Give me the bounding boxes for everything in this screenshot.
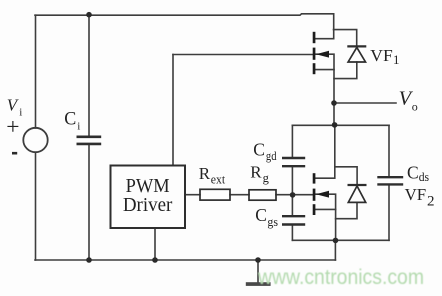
- svg-text:R: R: [199, 164, 211, 183]
- wire ground stub: [257, 260, 259, 282]
- wire VF1 drain vertical: [316, 14, 334, 39]
- wire junction to Cgs: [291, 195, 293, 216]
- wire Cgd branch upper: [291, 125, 293, 157]
- wire VF1 diode branch top: [334, 30, 357, 47]
- wire left vertical upper: [35, 15, 37, 128]
- node top rail / Ci: [86, 12, 92, 18]
- svg-text:o: o: [412, 99, 418, 113]
- wire PWM bottom lead: [154, 228, 156, 260]
- wire Ci branch upper: [88, 15, 90, 136]
- svg-text:i: i: [19, 107, 22, 119]
- node ground junction: [255, 257, 261, 263]
- svg-text:g: g: [263, 171, 270, 185]
- node Vo junction: [331, 100, 337, 106]
- resistor Rext: [200, 189, 230, 200]
- wire left vertical lower: [35, 152, 37, 260]
- PWM driver box U1: [111, 166, 186, 229]
- svg-text:C: C: [253, 140, 265, 160]
- wire Ci branch lower: [88, 145, 90, 260]
- svg-text:1: 1: [393, 52, 400, 67]
- svg-text:R: R: [250, 163, 262, 182]
- svg-text:www.cntronics.com: www.cntronics.com: [257, 265, 424, 289]
- wire Cgs branch lower: [291, 226, 293, 241]
- wire PWM gate feed vertical: [172, 55, 174, 166]
- svg-text:i: i: [77, 121, 80, 133]
- wire Rg to VF2 gate: [276, 194, 313, 196]
- ground: [246, 282, 271, 286]
- wire PWM to Rext: [185, 194, 200, 196]
- wire VF2 source stub: [316, 208, 336, 210]
- node VF2 source / bottom rail: [333, 238, 339, 244]
- wire lower network bottom rail: [292, 239, 389, 241]
- wire VF2 source to ground rail: [334, 240, 336, 260]
- diode (body) of VF1: [347, 46, 366, 62]
- wire Cds branch upper: [388, 125, 390, 176]
- svg-text:VF: VF: [405, 185, 427, 204]
- capacitor Cgs: [282, 216, 305, 224]
- svg-text:gs: gs: [267, 215, 278, 229]
- wire VF2 diode branch bottom: [336, 202, 357, 218]
- svg-text:C: C: [407, 163, 419, 183]
- svg-text:C: C: [64, 109, 76, 129]
- wire Rext to Rg: [230, 194, 249, 196]
- node Rg / Cgd / Cgs junction: [290, 192, 296, 198]
- wire Vo lead: [334, 102, 396, 104]
- wire VF1 diode branch bottom: [334, 62, 357, 79]
- diode (body) of VF2: [348, 185, 367, 202]
- svg-text:Driver: Driver: [123, 194, 173, 216]
- capacitor Ci: [77, 137, 102, 144]
- wire VF2 diode branch top: [335, 167, 357, 185]
- resistor Rg: [249, 190, 276, 200]
- wire lower network top rail: [292, 124, 389, 126]
- wire bottom rail: [35, 259, 335, 261]
- svg-text:2: 2: [427, 194, 435, 210]
- wire Cgd to junction: [291, 167, 293, 195]
- svg-text:gd: gd: [266, 149, 277, 163]
- node lower network top: [332, 122, 338, 128]
- label minus: [12, 152, 17, 155]
- wire VF1 source stub: [316, 69, 335, 71]
- source Vi circle: [23, 128, 47, 152]
- wire VF1 gate lead: [173, 54, 313, 56]
- capacitor Cds: [377, 177, 403, 184]
- wire Cds branch lower: [388, 185, 390, 240]
- node PWM bottom: [152, 257, 158, 263]
- svg-text:+: +: [6, 114, 19, 140]
- svg-text:V: V: [7, 96, 20, 115]
- wire VF2 body-source vertical: [316, 194, 336, 240]
- svg-text:VF: VF: [370, 46, 392, 65]
- wire VF2 drain vertical: [316, 125, 335, 178]
- capacitor Cgd: [282, 158, 305, 166]
- watermark: [0, 0, 1, 1]
- transistor VF1 (MOSFET): [313, 32, 329, 74]
- wire VF1 body-source vertical: [316, 54, 335, 125]
- node Ci bottom: [86, 257, 92, 263]
- svg-text:ext: ext: [211, 173, 226, 187]
- svg-text:C: C: [255, 205, 267, 225]
- transistor VF2 (MOSFET): [313, 173, 329, 215]
- svg-text:ds: ds: [419, 170, 430, 184]
- wire top rail: [35, 14, 334, 15]
